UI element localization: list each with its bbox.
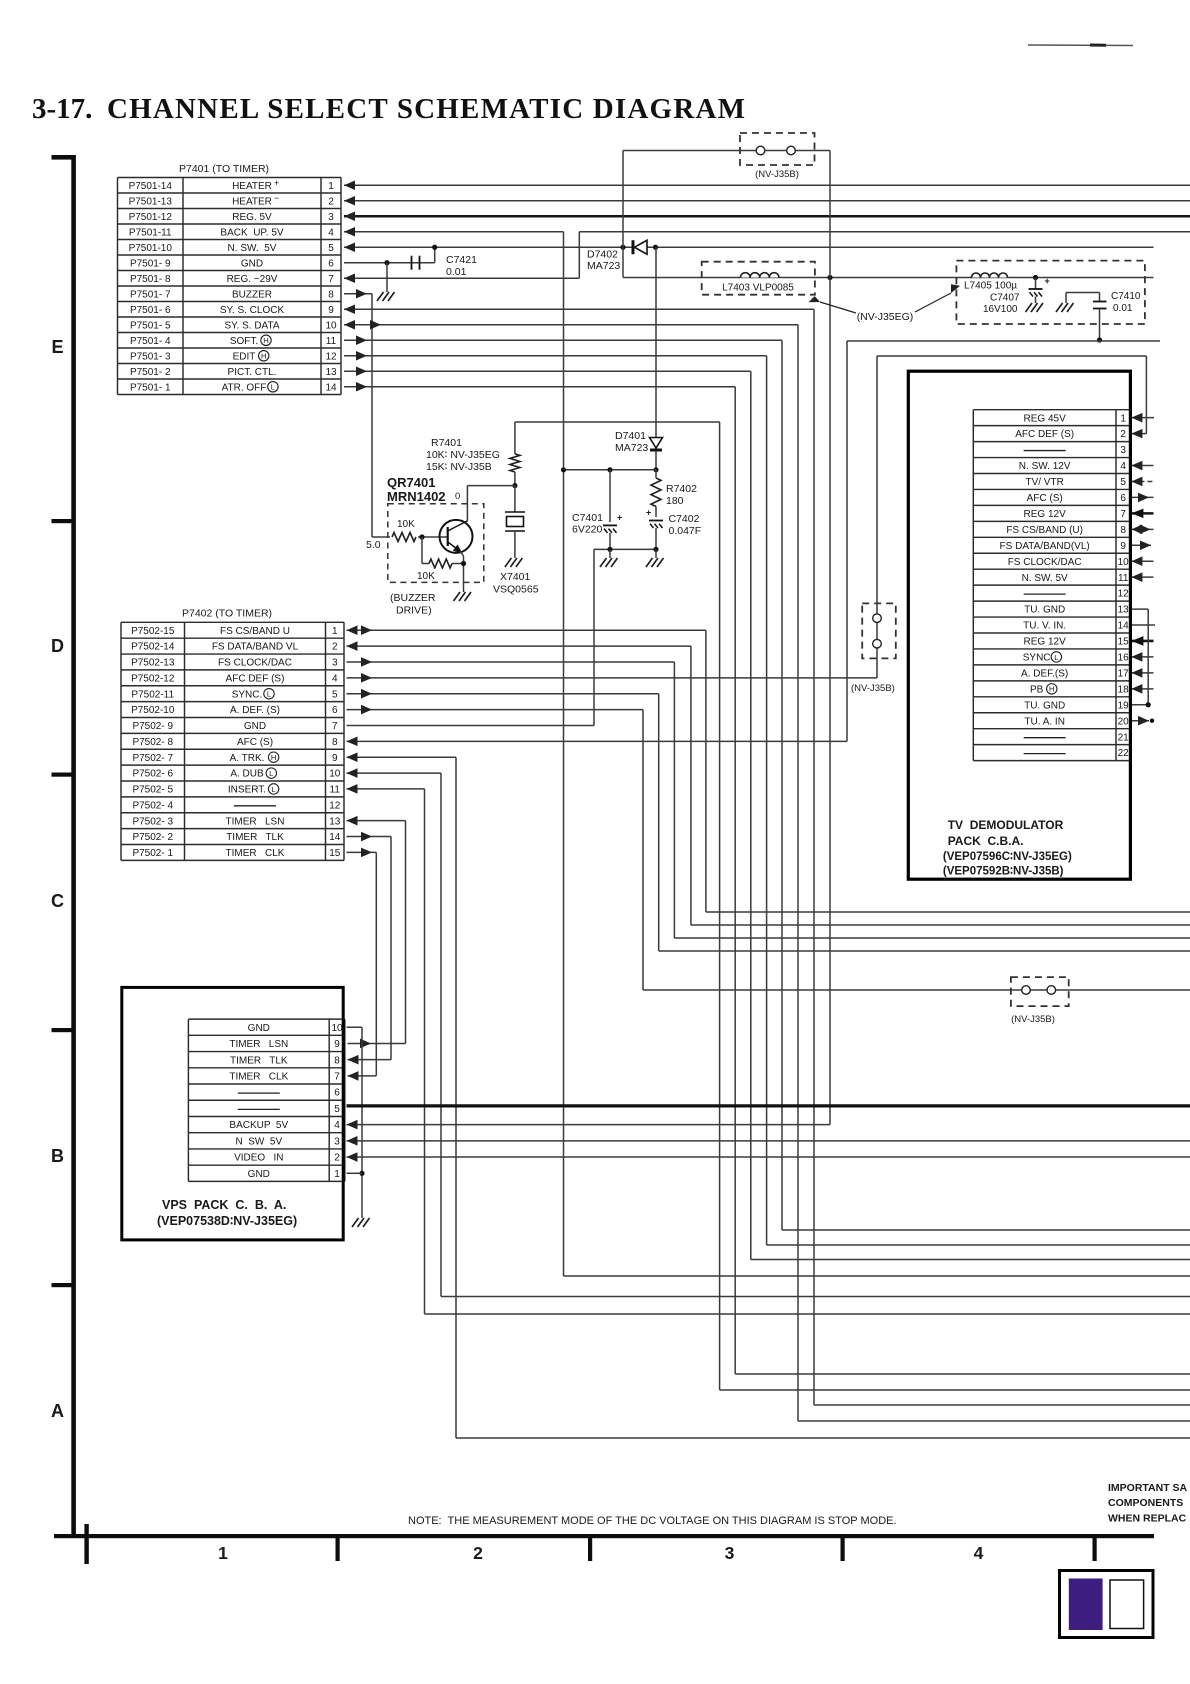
svg-text:REG. 5V: REG. 5V [232, 212, 272, 223]
svg-text:P7501-11: P7501-11 [129, 227, 172, 238]
svg-text:180: 180 [666, 495, 684, 507]
svg-text:(VEP07592B∶NV-J35B): (VEP07592B∶NV-J35B) [943, 866, 1064, 878]
svg-text:TIMER CLK: TIMER CLK [229, 1072, 288, 1083]
svg-text:NOTE: THE MEASUREMENT MODE OF: NOTE: THE MEASUREMENT MODE OF THE DC VOL… [408, 1515, 897, 1527]
svg-text:3: 3 [1120, 445, 1126, 456]
svg-text:ATR. OFF: ATR. OFF [222, 382, 267, 393]
svg-text:GND: GND [248, 1023, 270, 1034]
svg-text:4: 4 [334, 1120, 340, 1131]
svg-text:EDIT: EDIT [233, 351, 256, 362]
svg-text:9: 9 [334, 1039, 340, 1050]
svg-text:MA723: MA723 [587, 260, 620, 272]
svg-text:N. SW. 5V: N. SW. 5V [1022, 573, 1068, 584]
svg-text:P7502-12: P7502-12 [131, 673, 175, 684]
svg-text:P7501-14: P7501-14 [129, 181, 173, 192]
svg-text:P7502-13: P7502-13 [131, 658, 175, 669]
svg-text:17: 17 [1118, 668, 1130, 679]
svg-text:P7501-13: P7501-13 [129, 196, 173, 207]
svg-text:REG 45V: REG 45V [1024, 413, 1067, 424]
svg-text:MA723: MA723 [615, 442, 648, 454]
svg-text:QR7401: QR7401 [387, 475, 435, 490]
svg-text:VSQ0565: VSQ0565 [493, 584, 539, 596]
svg-text:7: 7 [332, 721, 338, 732]
svg-text:FS DATA/BAND VL: FS DATA/BAND VL [212, 642, 299, 653]
svg-text:0.01: 0.01 [1113, 303, 1133, 314]
svg-text:P7502-10: P7502-10 [131, 705, 175, 716]
svg-text:+: + [274, 178, 279, 188]
svg-text:C7410: C7410 [1111, 291, 1141, 302]
svg-text:P7501- 7: P7501- 7 [130, 289, 171, 300]
svg-text:A. DEF. (S): A. DEF. (S) [230, 705, 280, 716]
svg-text:P7502- 8: P7502- 8 [132, 737, 173, 748]
svg-text:(VEP07538D∶NV-J35EG): (VEP07538D∶NV-J35EG) [157, 1214, 297, 1228]
svg-text:AFC DEF (S): AFC DEF (S) [226, 673, 285, 684]
svg-text:TU. GND: TU. GND [1024, 605, 1065, 616]
svg-text:6: 6 [334, 1088, 340, 1099]
svg-text:1: 1 [1120, 413, 1126, 424]
svg-text:4: 4 [1120, 461, 1126, 472]
svg-text:10: 10 [331, 1023, 343, 1034]
svg-text:TIMER LSN: TIMER LSN [226, 816, 285, 827]
svg-text:A. DEF.(S): A. DEF.(S) [1021, 668, 1068, 679]
svg-text:20: 20 [1118, 716, 1130, 727]
svg-text:4: 4 [328, 227, 334, 238]
svg-text:SY. S. DATA: SY. S. DATA [224, 320, 279, 331]
svg-text:10K: 10K [397, 519, 415, 530]
svg-text:(VEP07596C∶NV-J35EG): (VEP07596C∶NV-J35EG) [943, 851, 1072, 863]
svg-text:P7501- 9: P7501- 9 [130, 258, 171, 269]
svg-text:15K∶ NV-J35B: 15K∶ NV-J35B [426, 461, 492, 473]
svg-text:SYNC: SYNC [1023, 653, 1051, 664]
svg-text:0: 0 [455, 491, 460, 502]
svg-text:H: H [1049, 685, 1054, 694]
svg-text:D7401: D7401 [615, 430, 646, 442]
svg-text:MRN1402: MRN1402 [387, 489, 446, 504]
svg-text:P7502- 7: P7502- 7 [132, 753, 173, 764]
svg-text:TU. GND: TU. GND [1024, 700, 1065, 711]
svg-text:L: L [271, 785, 275, 794]
svg-text:PICT. CTL.: PICT. CTL. [228, 367, 277, 378]
svg-text:9: 9 [332, 753, 338, 764]
svg-text:REG. −29V: REG. −29V [227, 274, 278, 285]
svg-text:BACKUP 5V: BACKUP 5V [229, 1120, 288, 1131]
svg-text:0.01: 0.01 [446, 266, 467, 278]
svg-text:9: 9 [1120, 541, 1126, 552]
svg-text:10: 10 [325, 320, 337, 331]
svg-text:C: C [51, 891, 64, 911]
svg-text:−: − [274, 193, 279, 203]
svg-text:D: D [51, 636, 64, 656]
svg-text:GND: GND [241, 258, 263, 269]
svg-text:C7401: C7401 [572, 512, 603, 524]
svg-text:VIDEO IN: VIDEO IN [234, 1153, 283, 1164]
svg-text:CHANNEL SELECT SCHEMATIC DIAGR: CHANNEL SELECT SCHEMATIC DIAGRAM [107, 93, 746, 125]
svg-text:+: + [646, 508, 651, 518]
svg-text:1: 1 [332, 626, 338, 637]
svg-text:TIMER TLK: TIMER TLK [226, 832, 284, 843]
svg-text:L7405 100µ: L7405 100µ [964, 281, 1017, 292]
svg-text:FS CLOCK/DAC: FS CLOCK/DAC [218, 658, 292, 669]
svg-text:16V100: 16V100 [983, 304, 1018, 315]
svg-text:5: 5 [328, 243, 334, 254]
svg-text:8: 8 [1120, 525, 1126, 536]
svg-text:14: 14 [1118, 621, 1130, 632]
svg-text:10K∶ NV-J35EG: 10K∶ NV-J35EG [426, 449, 500, 461]
svg-text:AFC DEF (S): AFC DEF (S) [1015, 429, 1074, 440]
svg-text:INSERT.: INSERT. [228, 785, 266, 796]
svg-text:13: 13 [1118, 605, 1130, 616]
svg-text:WHEN REPLAC: WHEN REPLAC [1108, 1513, 1187, 1525]
svg-text:1: 1 [334, 1169, 340, 1180]
svg-text:SYNC.: SYNC. [232, 689, 263, 700]
svg-text:P7501- 6: P7501- 6 [130, 305, 171, 316]
svg-text:TU. A. IN: TU. A. IN [1024, 716, 1065, 727]
svg-text:N SW 5V: N SW 5V [235, 1136, 282, 1147]
svg-text:C7421: C7421 [446, 254, 477, 266]
svg-text:+: + [1045, 276, 1050, 286]
svg-text:N. SW. 12V: N. SW. 12V [1019, 461, 1071, 472]
svg-text:8: 8 [332, 737, 338, 748]
svg-text:14: 14 [329, 832, 341, 843]
svg-text:6V220: 6V220 [572, 524, 603, 536]
svg-text:BUZZER: BUZZER [232, 289, 272, 300]
svg-text:L: L [267, 690, 271, 699]
svg-text:12: 12 [329, 800, 341, 811]
svg-text:P7502- 5: P7502- 5 [132, 785, 173, 796]
svg-text:P7501- 8: P7501- 8 [130, 274, 171, 285]
svg-text:FS DATA/BAND(VL): FS DATA/BAND(VL) [1000, 541, 1090, 552]
svg-text:22: 22 [1118, 748, 1130, 759]
svg-text:H: H [271, 753, 276, 762]
svg-text:TU. V. IN.: TU. V. IN. [1023, 621, 1066, 632]
svg-text:(NV-J35B): (NV-J35B) [1011, 1014, 1055, 1025]
svg-text:A: A [51, 1401, 64, 1421]
svg-text:12: 12 [325, 351, 337, 362]
svg-text:L: L [269, 769, 273, 778]
svg-text:7: 7 [334, 1072, 340, 1083]
svg-text:3-17.: 3-17. [32, 93, 92, 125]
svg-text:B: B [51, 1146, 64, 1166]
svg-text:P7501-12: P7501-12 [129, 212, 173, 223]
svg-text:P7401 (TO TIMER): P7401 (TO TIMER) [179, 163, 269, 175]
svg-text:11: 11 [1118, 573, 1129, 584]
svg-text:2: 2 [334, 1153, 340, 1164]
svg-text:FS CLOCK/DAC: FS CLOCK/DAC [1008, 557, 1082, 568]
svg-text:N. SW. 5V: N. SW. 5V [228, 243, 277, 254]
svg-text:P7501-10: P7501-10 [129, 243, 173, 254]
svg-text:GND: GND [248, 1169, 270, 1180]
svg-text:13: 13 [329, 816, 341, 827]
svg-text:COMPONENTS: COMPONENTS [1108, 1497, 1183, 1509]
svg-text:FS CS/BAND U: FS CS/BAND U [220, 626, 290, 637]
svg-text:(NV-J35B): (NV-J35B) [851, 683, 895, 694]
svg-text:P7502- 6: P7502- 6 [132, 769, 173, 780]
svg-text:+: + [617, 512, 622, 522]
svg-text:IMPORTANT SA: IMPORTANT SA [1108, 1482, 1188, 1494]
svg-text:11: 11 [330, 785, 341, 796]
svg-text:5: 5 [1120, 477, 1126, 488]
svg-text:C7402: C7402 [669, 513, 700, 525]
svg-text:3: 3 [334, 1136, 340, 1147]
svg-text:8: 8 [334, 1055, 340, 1066]
svg-text:4: 4 [332, 673, 338, 684]
svg-text:3: 3 [328, 212, 334, 223]
svg-text:16: 16 [1118, 653, 1130, 664]
svg-text:P7502- 1: P7502- 1 [132, 848, 173, 859]
svg-text:L: L [271, 383, 275, 392]
svg-text:15: 15 [329, 848, 341, 859]
svg-text:X7401: X7401 [500, 571, 531, 583]
svg-text:5: 5 [334, 1104, 340, 1115]
svg-text:GND: GND [244, 721, 266, 732]
svg-text:HEATER: HEATER [232, 196, 272, 207]
svg-text:L7403 VLP0085: L7403 VLP0085 [722, 283, 794, 294]
svg-text:P7502- 4: P7502- 4 [132, 800, 173, 811]
svg-text:6: 6 [1120, 493, 1126, 504]
svg-text:P7502-15: P7502-15 [131, 626, 175, 637]
svg-text:10: 10 [329, 769, 341, 780]
svg-text:REG 12V: REG 12V [1024, 509, 1067, 520]
svg-text:D7402: D7402 [587, 249, 618, 261]
svg-text:0.047F: 0.047F [669, 525, 702, 537]
svg-text:L: L [1054, 653, 1058, 662]
svg-text:TIMER CLK: TIMER CLK [226, 848, 285, 859]
svg-text:3: 3 [725, 1543, 735, 1563]
svg-text:P7501- 5: P7501- 5 [130, 320, 171, 331]
svg-text:(BUZZER: (BUZZER [390, 592, 436, 604]
svg-text:2: 2 [473, 1543, 483, 1563]
svg-text:SY. S. CLOCK: SY. S. CLOCK [220, 305, 285, 316]
svg-text:11: 11 [326, 336, 337, 347]
svg-text:AFC (S): AFC (S) [1027, 493, 1063, 504]
svg-text:P7502- 2: P7502- 2 [132, 832, 173, 843]
svg-text:TIMER LSN: TIMER LSN [229, 1039, 288, 1050]
svg-text:8: 8 [328, 289, 334, 300]
svg-text:TV/ VTR: TV/ VTR [1025, 477, 1063, 488]
svg-text:(NV-J35B): (NV-J35B) [755, 169, 799, 180]
svg-text:2: 2 [332, 642, 338, 653]
svg-text:12: 12 [1118, 589, 1130, 600]
svg-text:P7501- 3: P7501- 3 [130, 351, 171, 362]
svg-text:1: 1 [328, 181, 334, 192]
svg-text:P7502- 3: P7502- 3 [132, 816, 173, 827]
svg-text:19: 19 [1118, 700, 1130, 711]
svg-text:3: 3 [332, 658, 338, 669]
svg-text:15: 15 [1118, 637, 1130, 648]
svg-text:REG 12V: REG 12V [1024, 637, 1067, 648]
svg-text:5.0: 5.0 [366, 539, 381, 551]
svg-text:R7401: R7401 [431, 437, 462, 449]
svg-text:P7502-14: P7502-14 [131, 642, 175, 653]
svg-text:H: H [263, 336, 268, 345]
svg-text:14: 14 [325, 382, 337, 393]
svg-text:HEATER: HEATER [232, 181, 272, 192]
svg-text:AFC (S): AFC (S) [237, 737, 273, 748]
svg-text:C7407: C7407 [990, 293, 1020, 304]
svg-text:7: 7 [328, 274, 334, 285]
svg-text:10: 10 [1118, 557, 1130, 568]
svg-text:H: H [261, 352, 266, 361]
svg-text:VPS PACK C. B. A.: VPS PACK C. B. A. [162, 1198, 286, 1212]
svg-text:PACK C.B.A.: PACK C.B.A. [948, 834, 1024, 848]
svg-text:6: 6 [328, 258, 334, 269]
svg-text:P7402 (TO TIMER): P7402 (TO TIMER) [182, 608, 272, 620]
svg-text:FS CS/BAND (U): FS CS/BAND (U) [1006, 525, 1083, 536]
svg-text:4: 4 [974, 1543, 984, 1563]
svg-text:6: 6 [332, 705, 338, 716]
svg-text:P7502-11: P7502-11 [131, 689, 174, 700]
svg-text:(NV-J35EG): (NV-J35EG) [857, 311, 914, 323]
svg-text:P7502- 9: P7502- 9 [132, 721, 173, 732]
svg-text:13: 13 [325, 367, 337, 378]
svg-text:TV DEMODULATOR: TV DEMODULATOR [948, 818, 1064, 832]
svg-text:A. DUB: A. DUB [230, 769, 264, 780]
svg-text:P7501- 4: P7501- 4 [130, 336, 171, 347]
svg-text:9: 9 [328, 305, 334, 316]
svg-text:E: E [51, 337, 63, 357]
svg-text:2: 2 [1120, 429, 1126, 440]
svg-text:10K: 10K [417, 571, 435, 582]
svg-text:P7501- 1: P7501- 1 [130, 382, 171, 393]
svg-text:1: 1 [218, 1543, 228, 1563]
svg-text:SOFT.: SOFT. [230, 336, 258, 347]
svg-text:R7402: R7402 [666, 483, 697, 495]
svg-text:5: 5 [332, 689, 338, 700]
svg-text:7: 7 [1120, 509, 1126, 520]
svg-text:DRIVE): DRIVE) [396, 605, 432, 617]
svg-text:TIMER TLK: TIMER TLK [230, 1055, 288, 1066]
svg-text:18: 18 [1118, 684, 1130, 695]
svg-text:BACK UP. 5V: BACK UP. 5V [220, 227, 284, 238]
svg-text:PB: PB [1030, 684, 1044, 695]
svg-text:2: 2 [328, 196, 334, 207]
svg-text:21: 21 [1118, 732, 1130, 743]
svg-text:A. TRK.: A. TRK. [230, 753, 265, 764]
svg-text:P7501- 2: P7501- 2 [130, 367, 171, 378]
